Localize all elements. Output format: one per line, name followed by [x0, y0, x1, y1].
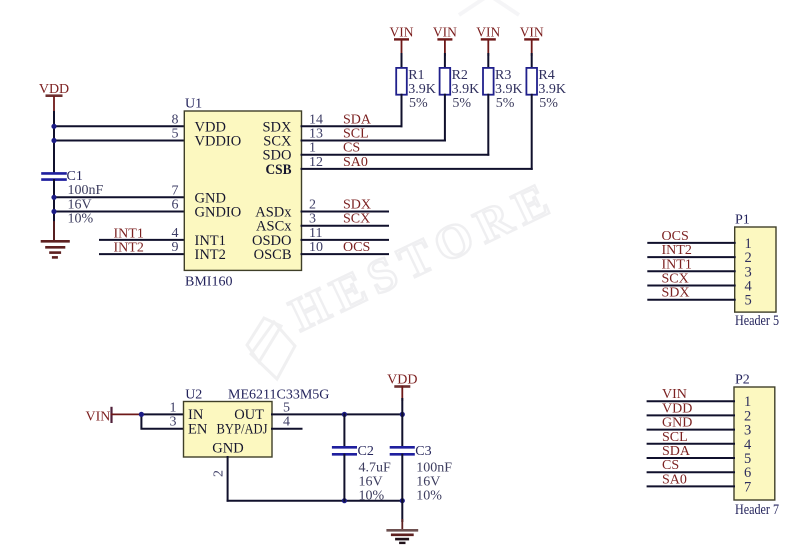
- svg-text:5: 5: [172, 127, 179, 142]
- wire C1 bottom to ground: [53, 180, 55, 241]
- wire U2 GND down: [227, 457, 229, 501]
- svg-text:SDA: SDA: [343, 112, 372, 127]
- wire VIN junction down to EN: [141, 414, 183, 428]
- svg-text:C1: C1: [67, 169, 83, 184]
- wire SCX stub: [302, 225, 389, 227]
- svg-text:7: 7: [172, 183, 179, 198]
- svg-text:CS: CS: [343, 141, 360, 156]
- junction OUT/VDD/C3: [400, 412, 405, 417]
- svg-text:4: 4: [172, 226, 179, 241]
- svg-text:VIN: VIN: [390, 25, 414, 40]
- svg-text:5%: 5%: [539, 96, 558, 111]
- U1 left pin numbers 8 5 7 6 4 9: [172, 112, 179, 255]
- svg-text:16V: 16V: [68, 198, 92, 213]
- svg-text:12: 12: [309, 155, 323, 170]
- svg-text:GND: GND: [662, 416, 692, 431]
- P1 pin numbers 1-5: [745, 236, 753, 309]
- svg-text:VDD: VDD: [662, 401, 692, 416]
- wire P2 pin2: [648, 414, 734, 416]
- svg-text:7: 7: [744, 479, 751, 495]
- svg-text:1: 1: [170, 400, 177, 415]
- U2 pin numbers: [170, 400, 291, 477]
- svg-text:OCS: OCS: [662, 229, 689, 244]
- resistor R3: [483, 68, 523, 111]
- power VDD (U2 output): [387, 373, 417, 400]
- watermark logo and HESTORE text (store overlay): [247, 0, 564, 379]
- svg-text:10: 10: [309, 240, 323, 255]
- svg-text:2: 2: [212, 470, 227, 477]
- svg-text:R1: R1: [408, 68, 424, 83]
- wire C2 top lead: [343, 414, 345, 447]
- svg-text:SCX: SCX: [662, 272, 689, 287]
- svg-text:13: 13: [309, 127, 323, 142]
- wire P2 pin4: [648, 443, 734, 445]
- svg-text:SDX: SDX: [343, 198, 371, 213]
- wire P2 pin7: [648, 485, 734, 487]
- resistor R1: [396, 68, 436, 111]
- svg-text:SA0: SA0: [662, 472, 687, 487]
- svg-text:C3: C3: [415, 444, 431, 459]
- capacitor C2: [333, 444, 391, 504]
- wire P1 pin4: [648, 285, 734, 287]
- power VDD (U1 supply rail): [39, 82, 69, 113]
- svg-text:SCL: SCL: [343, 127, 369, 142]
- svg-text:BYP/ADJ: BYP/ADJ: [217, 421, 268, 437]
- svg-text:U2: U2: [185, 387, 202, 402]
- ground (U1 / C1): [42, 222, 69, 257]
- connector P2 body: [734, 373, 779, 519]
- junction rail/C2: [342, 498, 347, 503]
- wire rail to ground symbol: [401, 501, 403, 521]
- svg-text:R2: R2: [452, 68, 468, 83]
- wire P1 pin5: [648, 299, 734, 301]
- wire P2 pin1: [648, 400, 734, 402]
- svg-text:SDA: SDA: [662, 444, 691, 459]
- wire pin8 row: [54, 125, 184, 127]
- ground (regulator output): [388, 520, 417, 543]
- power VIN (above R1): [390, 25, 414, 55]
- svg-text:GNDIO: GNDIO: [195, 205, 242, 221]
- wire VDD stub to OUT node: [401, 399, 403, 414]
- svg-text:5%: 5%: [496, 96, 515, 111]
- resistor R4: [526, 68, 566, 111]
- P2 pin numbers 1-7: [744, 394, 752, 495]
- svg-text:Header 7: Header 7: [735, 502, 779, 518]
- svg-text:R4: R4: [538, 68, 554, 83]
- svg-text:5: 5: [745, 293, 752, 309]
- wire R1 bottom lead: [401, 95, 403, 127]
- svg-text:4: 4: [283, 415, 290, 430]
- svg-text:U1: U1: [185, 97, 202, 112]
- junction on VDD rail pin5: [51, 138, 56, 143]
- svg-text:3.9K: 3.9K: [408, 82, 436, 97]
- wire OCS stub: [302, 253, 389, 255]
- power VIN (above R2): [433, 25, 457, 55]
- svg-text:GND: GND: [212, 441, 243, 457]
- junction on gnd rail pin6: [51, 209, 56, 214]
- svg-text:14: 14: [309, 112, 323, 127]
- wire BYP/ADJ stub pin4: [272, 428, 302, 430]
- svg-text:CS: CS: [662, 458, 679, 473]
- power VIN (above R3): [476, 25, 500, 55]
- wire SDX stub: [302, 211, 389, 213]
- wire P1 pin3: [648, 270, 734, 272]
- svg-text:2: 2: [309, 198, 316, 213]
- wire R4 bottom lead: [531, 95, 533, 169]
- svg-text:P1: P1: [735, 213, 750, 228]
- wire C3 top lead: [401, 414, 403, 447]
- svg-text:10%: 10%: [359, 489, 385, 504]
- wire C3 bottom lead: [401, 455, 403, 501]
- wire VIN to R4 top: [531, 54, 533, 68]
- svg-text:OCS: OCS: [343, 240, 370, 255]
- junction on VDD rail pin8: [51, 124, 56, 129]
- svg-text:16V: 16V: [359, 474, 383, 489]
- capacitor C1: [43, 169, 104, 227]
- junction VIN/EN: [139, 412, 144, 417]
- svg-text:INT1: INT1: [662, 257, 692, 272]
- svg-text:VIN: VIN: [86, 410, 111, 425]
- svg-text:VDDIO: VDDIO: [195, 134, 242, 150]
- U1 right pin names: [252, 119, 292, 263]
- svg-text:INT2: INT2: [114, 241, 144, 256]
- wire SCL row: [302, 140, 445, 142]
- wire P1 pin1: [648, 242, 734, 244]
- junction rail/C3/gnd: [400, 498, 405, 503]
- IC U1 BMI160 body: [184, 97, 301, 290]
- svg-text:C2: C2: [358, 444, 374, 459]
- svg-text:3: 3: [170, 415, 177, 430]
- svg-text:11: 11: [309, 226, 322, 241]
- svg-text:5%: 5%: [409, 96, 428, 111]
- wire VIN to R1 top: [401, 54, 403, 68]
- svg-text:8: 8: [172, 112, 179, 127]
- wire C2 bottom lead: [343, 455, 345, 501]
- svg-text:P2: P2: [735, 373, 750, 388]
- resistor R2: [440, 68, 480, 111]
- svg-text:6: 6: [172, 198, 179, 213]
- wire P2 pin6: [648, 471, 734, 473]
- U1 right pin numbers: [309, 112, 323, 255]
- svg-text:VIN: VIN: [520, 25, 544, 40]
- svg-text:5: 5: [283, 400, 290, 415]
- svg-text:BMI160: BMI160: [185, 275, 232, 290]
- node INT1 wire: [100, 239, 184, 241]
- wire P2 pin5: [648, 457, 734, 459]
- svg-text:4.7uF: 4.7uF: [359, 460, 392, 475]
- power VIN (above R4): [520, 25, 544, 55]
- port VIN (input): [86, 408, 142, 425]
- wire U2 OUT to VDD node: [272, 413, 402, 415]
- svg-text:OSCB: OSCB: [254, 247, 292, 263]
- capacitor C3: [391, 444, 452, 504]
- svg-text:R3: R3: [495, 68, 511, 83]
- junction on gnd rail pin7: [51, 195, 56, 200]
- svg-text:SA0: SA0: [343, 155, 368, 170]
- wire VIN to R3 top: [487, 54, 489, 68]
- svg-text:100nF: 100nF: [416, 460, 452, 475]
- svg-text:10%: 10%: [68, 212, 94, 227]
- U2 pin names: [188, 407, 268, 456]
- wire OSDO stub pin11: [302, 239, 389, 241]
- wire SDA row: [302, 125, 402, 127]
- svg-text:CSB: CSB: [266, 162, 292, 178]
- svg-text:INT1: INT1: [114, 226, 144, 241]
- regulator U2 ME6211C33M5G body: [184, 387, 330, 457]
- wire pin6 row: [54, 211, 184, 213]
- svg-text:100nF: 100nF: [68, 183, 104, 198]
- svg-text:VIN: VIN: [433, 25, 457, 40]
- svg-text:SCL: SCL: [662, 430, 688, 445]
- svg-text:9: 9: [172, 240, 179, 255]
- wire CS row: [302, 154, 489, 156]
- wire pin5 row: [54, 140, 184, 142]
- wire P1 pin2: [648, 256, 734, 258]
- svg-text:3.9K: 3.9K: [452, 82, 480, 97]
- wire SA0 row: [302, 168, 532, 170]
- svg-text:ME6211C33M5G: ME6211C33M5G: [228, 387, 329, 402]
- wire R2 bottom lead: [444, 95, 446, 141]
- svg-text:Header 5: Header 5: [735, 313, 779, 329]
- svg-text:16V: 16V: [416, 474, 440, 489]
- U1 left pin names: [195, 119, 242, 263]
- wire pin7 row: [54, 196, 184, 198]
- svg-text:SDX: SDX: [662, 286, 690, 301]
- wire VIN junction to U2 IN: [141, 413, 183, 415]
- wire P2 pin3: [648, 429, 734, 431]
- svg-text:3: 3: [309, 212, 316, 227]
- svg-text:VIN: VIN: [476, 25, 500, 40]
- wire VDD vertical to C1 top: [53, 112, 55, 173]
- svg-text:3.9K: 3.9K: [495, 82, 523, 97]
- svg-text:INT2: INT2: [662, 243, 692, 258]
- wire VIN to R2 top: [444, 54, 446, 68]
- wire ground rail: [228, 500, 403, 502]
- wire R3 bottom lead: [487, 95, 489, 155]
- connector P1 body: [735, 213, 779, 330]
- node INT2 wire: [100, 253, 184, 255]
- svg-text:SCX: SCX: [343, 212, 370, 227]
- svg-text:3.9K: 3.9K: [538, 82, 566, 97]
- junction OUT/C2: [342, 412, 347, 417]
- svg-text:5%: 5%: [452, 96, 471, 111]
- svg-text:EN: EN: [188, 421, 208, 437]
- svg-text:VIN: VIN: [662, 387, 687, 402]
- svg-text:INT2: INT2: [195, 247, 226, 263]
- svg-text:10%: 10%: [416, 489, 442, 504]
- svg-text:1: 1: [309, 141, 316, 156]
